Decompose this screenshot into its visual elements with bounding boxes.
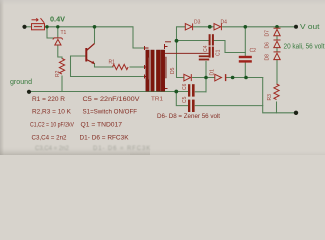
svg-text:C3,C4 = 2n2: C3,C4 = 2n2 xyxy=(32,135,68,142)
svg-text:0.4V: 0.4V xyxy=(50,17,65,24)
svg-text:C6: C6 xyxy=(182,83,188,90)
svg-text:R2: R2 xyxy=(55,70,61,77)
svg-text:R1 = 220 R: R1 = 220 R xyxy=(32,96,66,103)
svg-text:C1,C2 = 10 pF/2kV: C1,C2 = 10 pF/2kV xyxy=(30,122,75,129)
svg-text:D8: D8 xyxy=(265,54,271,61)
svg-text:C5 = 22nF/1600V: C5 = 22nF/1600V xyxy=(83,96,141,103)
svg-text:C5: C5 xyxy=(182,96,188,103)
svg-text:C3,C4 = 2n2: C3,C4 = 2n2 xyxy=(35,146,70,152)
svg-text:D1: D1 xyxy=(210,69,216,76)
svg-text:D7: D7 xyxy=(265,30,271,37)
svg-text:ground: ground xyxy=(10,79,32,86)
svg-text:D5: D5 xyxy=(170,67,176,74)
svg-text:R1: R1 xyxy=(109,60,116,66)
svg-text:D3: D3 xyxy=(194,20,201,26)
svg-text:D6- D8 = Zener 56 volt: D6- D8 = Zener 56 volt xyxy=(157,113,220,120)
svg-text:20 kali, 56 volt: 20 kali, 56 volt xyxy=(284,44,325,51)
svg-text:S1=Switch ON/OFF: S1=Switch ON/OFF xyxy=(83,109,138,116)
svg-text:Q1 = TND017: Q1 = TND017 xyxy=(81,122,123,129)
svg-text:C4: C4 xyxy=(203,45,209,52)
svg-text:D1- D6 = RFC3K: D1- D6 = RFC3K xyxy=(80,135,130,142)
svg-text:C2: C2 xyxy=(250,48,257,54)
svg-text:D1- D6 = RFC3K: D1- D6 = RFC3K xyxy=(93,146,151,152)
svg-text:TR1: TR1 xyxy=(151,97,163,103)
svg-text:C1: C1 xyxy=(216,49,222,56)
svg-text:D6: D6 xyxy=(265,42,271,49)
svg-text:D4: D4 xyxy=(221,20,228,26)
svg-text:T1: T1 xyxy=(61,30,67,36)
svg-text:R3: R3 xyxy=(267,94,273,101)
svg-text:R2,R3 = 10 K: R2,R3 = 10 K xyxy=(32,109,72,116)
svg-text:V out: V out xyxy=(300,24,320,31)
